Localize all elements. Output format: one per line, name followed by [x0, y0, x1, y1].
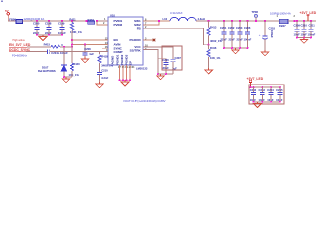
resistor R440: [69, 47, 81, 77]
resistor R416: [207, 45, 221, 68]
capacitor C282: [250, 87, 257, 102]
svg-text:EP: EP: [129, 61, 133, 65]
no-connect PGOOD: [143, 39, 155, 42]
wire EN rise to pin line: [71, 40, 73, 47]
net label EN_3V7_LED: [9, 39, 31, 47]
wire input rail: [8, 20, 16, 22]
capacitor C207: [171, 56, 182, 74]
capacitor C210b: [301, 21, 308, 38]
capacitor C218 polarized: [259, 21, 276, 50]
capacitor C204 (series): [47, 49, 68, 55]
DNP box bottom bank: [249, 85, 284, 104]
svg-text:F0=600KHz: F0=600KHz: [12, 54, 27, 58]
ground IC: [121, 80, 129, 86]
svg-text:3.3nF: 3.3nF: [101, 76, 108, 80]
capacitor C284: [267, 87, 274, 102]
ferrite bead FB07: [270, 11, 296, 28]
wire VCC route: [143, 47, 173, 59]
svg-text:100R@100M 4A: 100R@100M 4A: [270, 11, 291, 15]
wire SYNC/COMP line to IC: [50, 51, 108, 53]
capacitor C198: [45, 21, 52, 35]
ground input caps: [39, 35, 47, 41]
ground bottom bank: [254, 102, 262, 108]
svg-text:34K8_1%: 34K8_1%: [101, 63, 113, 67]
ground C218: [261, 50, 269, 56]
wire rail after FB07: [288, 20, 316, 22]
svg-text:PGOOD: PGOOD: [130, 38, 142, 42]
svg-text:R411: R411: [69, 18, 76, 22]
capacitor C210 comp: [97, 68, 108, 82]
svg-text:EN: EN: [114, 38, 118, 42]
svg-text:C200: C200: [33, 22, 40, 26]
ground output caps: [232, 48, 240, 54]
capacitor C200: [33, 21, 40, 35]
wire COMP down: [99, 52, 101, 55]
svg-text:AGND: AGND: [111, 55, 115, 65]
svg-text:VOUT=0.8*(1+R413/R416)=0.88V: VOUT=0.8*(1+R413/R416)=0.88V: [123, 99, 166, 103]
wire SYNC stub: [102, 47, 108, 49]
wire output caps join: [224, 47, 248, 49]
wire SW1: [143, 20, 170, 22]
capacitor C202: [228, 21, 235, 48]
svg-text:+: +: [259, 33, 261, 37]
inductor L10: [163, 11, 205, 21]
svg-text:1uF: 1uF: [89, 52, 94, 56]
svg-text:PVIN2: PVIN2: [114, 23, 123, 27]
svg-text:C202: C202: [228, 26, 235, 30]
ground C208: [81, 57, 89, 63]
wire output rail: [196, 20, 279, 22]
svg-text:C209: C209: [294, 23, 301, 27]
svg-text:C198: C198: [45, 22, 52, 26]
node junctions on input rail: [36, 20, 38, 22]
ferrite bead FB06: [9, 17, 44, 23]
net label DCDC_SYNC: [9, 48, 31, 52]
svg-text:PGND1: PGND1: [116, 54, 120, 65]
capacitor C283: [259, 87, 266, 102]
svg-text:SS/TRK: SS/TRK: [130, 48, 142, 52]
wire C206 feed: [158, 59, 166, 63]
svg-text:3.3A MAX: 3.3A MAX: [170, 11, 183, 15]
power flag +3V7_LED top: [300, 11, 317, 21]
svg-text:Ref.BAT54WS: Ref.BAT54WS: [38, 69, 56, 73]
ground D107/R440: [62, 77, 70, 83]
ground right caps: [300, 38, 308, 44]
svg-text:C208: C208: [84, 47, 91, 51]
svg-text:C203: C203: [236, 26, 243, 30]
wire SYNC net: [26, 51, 47, 53]
svg-text:FB06: FB06: [9, 17, 16, 21]
wire EN net to R440/D107: [60, 46, 72, 48]
svg-text:TP08: TP08: [252, 10, 259, 14]
svg-text:U10: U10: [110, 13, 115, 17]
wire AVIN line: [72, 44, 108, 46]
wire SW2 join: [143, 21, 159, 25]
wire caps bottom join: [37, 34, 62, 36]
svg-text:C206: C206: [162, 58, 169, 62]
svg-text:R415: R415: [44, 42, 51, 46]
wire PVIN2 branch: [97, 21, 108, 25]
wire bottom bank join: [254, 101, 280, 103]
node AVIN junction: [71, 44, 73, 46]
svg-text:R413: R413: [210, 25, 217, 29]
wire right caps join: [297, 37, 311, 39]
ground DNP caps: [157, 74, 165, 80]
svg-text:100nF: 100nF: [308, 33, 316, 37]
capacitor C201: [220, 21, 227, 48]
svg-text:L10: L10: [163, 17, 168, 21]
svg-text:C210: C210: [101, 68, 108, 72]
resistor R413: [207, 21, 222, 45]
svg-text:10K_1%: 10K_1%: [210, 56, 221, 60]
svg-text:100uF: 100uF: [270, 30, 274, 38]
node junctions on output rail: [208, 20, 210, 22]
svg-text:D107: D107: [42, 65, 49, 69]
wire bottom join: [120, 79, 131, 81]
capacitor C204b: [244, 21, 252, 48]
resistor R418: [98, 54, 114, 72]
wire bottom bank top rail: [251, 86, 280, 88]
svg-text:R440: R440: [73, 62, 80, 66]
resistor R415: [44, 42, 64, 48]
svg-text:C210: C210: [301, 23, 308, 27]
svg-text:C207: C207: [175, 56, 182, 60]
resistor R411: [69, 18, 82, 40]
svg-text:LM20133: LM20133: [136, 67, 148, 71]
svg-text:C199: C199: [58, 22, 65, 26]
svg-text:PGND2: PGND2: [120, 54, 124, 65]
ground comp: [96, 82, 104, 88]
capacitor C206: [162, 58, 169, 74]
DNP box C206/C207: [162, 46, 182, 70]
svg-text:C201: C201: [220, 26, 227, 30]
test point TP08: [252, 10, 259, 22]
wire D107/R440 join: [64, 76, 72, 78]
corner mark: [1, 0, 3, 2]
resistor R404 (series bead on rail): [88, 18, 95, 24]
svg-text:R416: R416: [210, 46, 217, 50]
svg-text:10K_1%: 10K_1%: [69, 73, 80, 77]
wire DNP caps join: [158, 73, 173, 75]
node junctions right rail: [296, 20, 298, 22]
svg-text:COMP: COMP: [114, 50, 123, 54]
op-amp-like regulator U10: [103, 13, 148, 70]
wire FB route: [143, 28, 209, 45]
power 5V: [5, 9, 10, 21]
svg-text:4.3uH: 4.3uH: [198, 17, 205, 21]
capacitor C211: [308, 21, 316, 38]
svg-text:FB07: FB07: [279, 24, 286, 28]
ground R416: [205, 68, 213, 74]
capacitor C203: [236, 21, 243, 48]
power flag +3V7_LED bottom: [247, 77, 264, 87]
svg-text:R404: R404: [88, 18, 95, 22]
wire rail to IC: [23, 20, 89, 22]
wire EN to pin 12: [72, 39, 108, 41]
capacitor C199: [58, 21, 66, 35]
diode D107: [38, 47, 67, 77]
capacitor C209: [294, 21, 301, 38]
svg-text:C206: C206: [244, 26, 251, 30]
wire EN net: [27, 46, 51, 48]
svg-text:C211: C211: [309, 23, 316, 27]
wire IC bottom pins: [119, 65, 121, 80]
capacitor C208: [83, 45, 95, 58]
wire SS/TRK route: [143, 50, 158, 75]
svg-text:R418: R418: [101, 54, 108, 58]
capacitor C285: [276, 87, 283, 102]
svg-text:High active: High active: [13, 39, 26, 42]
